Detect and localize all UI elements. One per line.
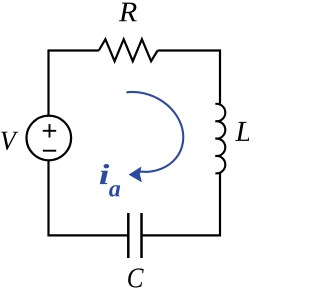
- inductor L1 coils: [215, 104, 225, 174]
- capacitor C1 right plate: [140, 213, 143, 258]
- mesh current arrowhead: [129, 167, 142, 183]
- label C: [128, 268, 144, 287]
- resistor R1 zigzag: [99, 39, 158, 61]
- wire capacitor to bottom-left corner up to source: [49, 160, 129, 235]
- voltage source V1 circle: [27, 116, 72, 161]
- wire top-left to resistor: [49, 51, 99, 116]
- mesh current arc: [126, 92, 183, 172]
- label L: [235, 122, 250, 141]
- plus sign: [43, 124, 56, 137]
- wire inductor to bottom-right corner to capacitor: [142, 173, 221, 235]
- capacitor C1 left plate: [127, 213, 130, 258]
- label R: [119, 3, 137, 22]
- wire resistor to top-right corner down to inductor: [158, 51, 220, 104]
- label V: [1, 132, 18, 150]
- label i: [100, 164, 110, 184]
- label a subscript: [109, 185, 120, 197]
- minus sign: [43, 150, 56, 152]
